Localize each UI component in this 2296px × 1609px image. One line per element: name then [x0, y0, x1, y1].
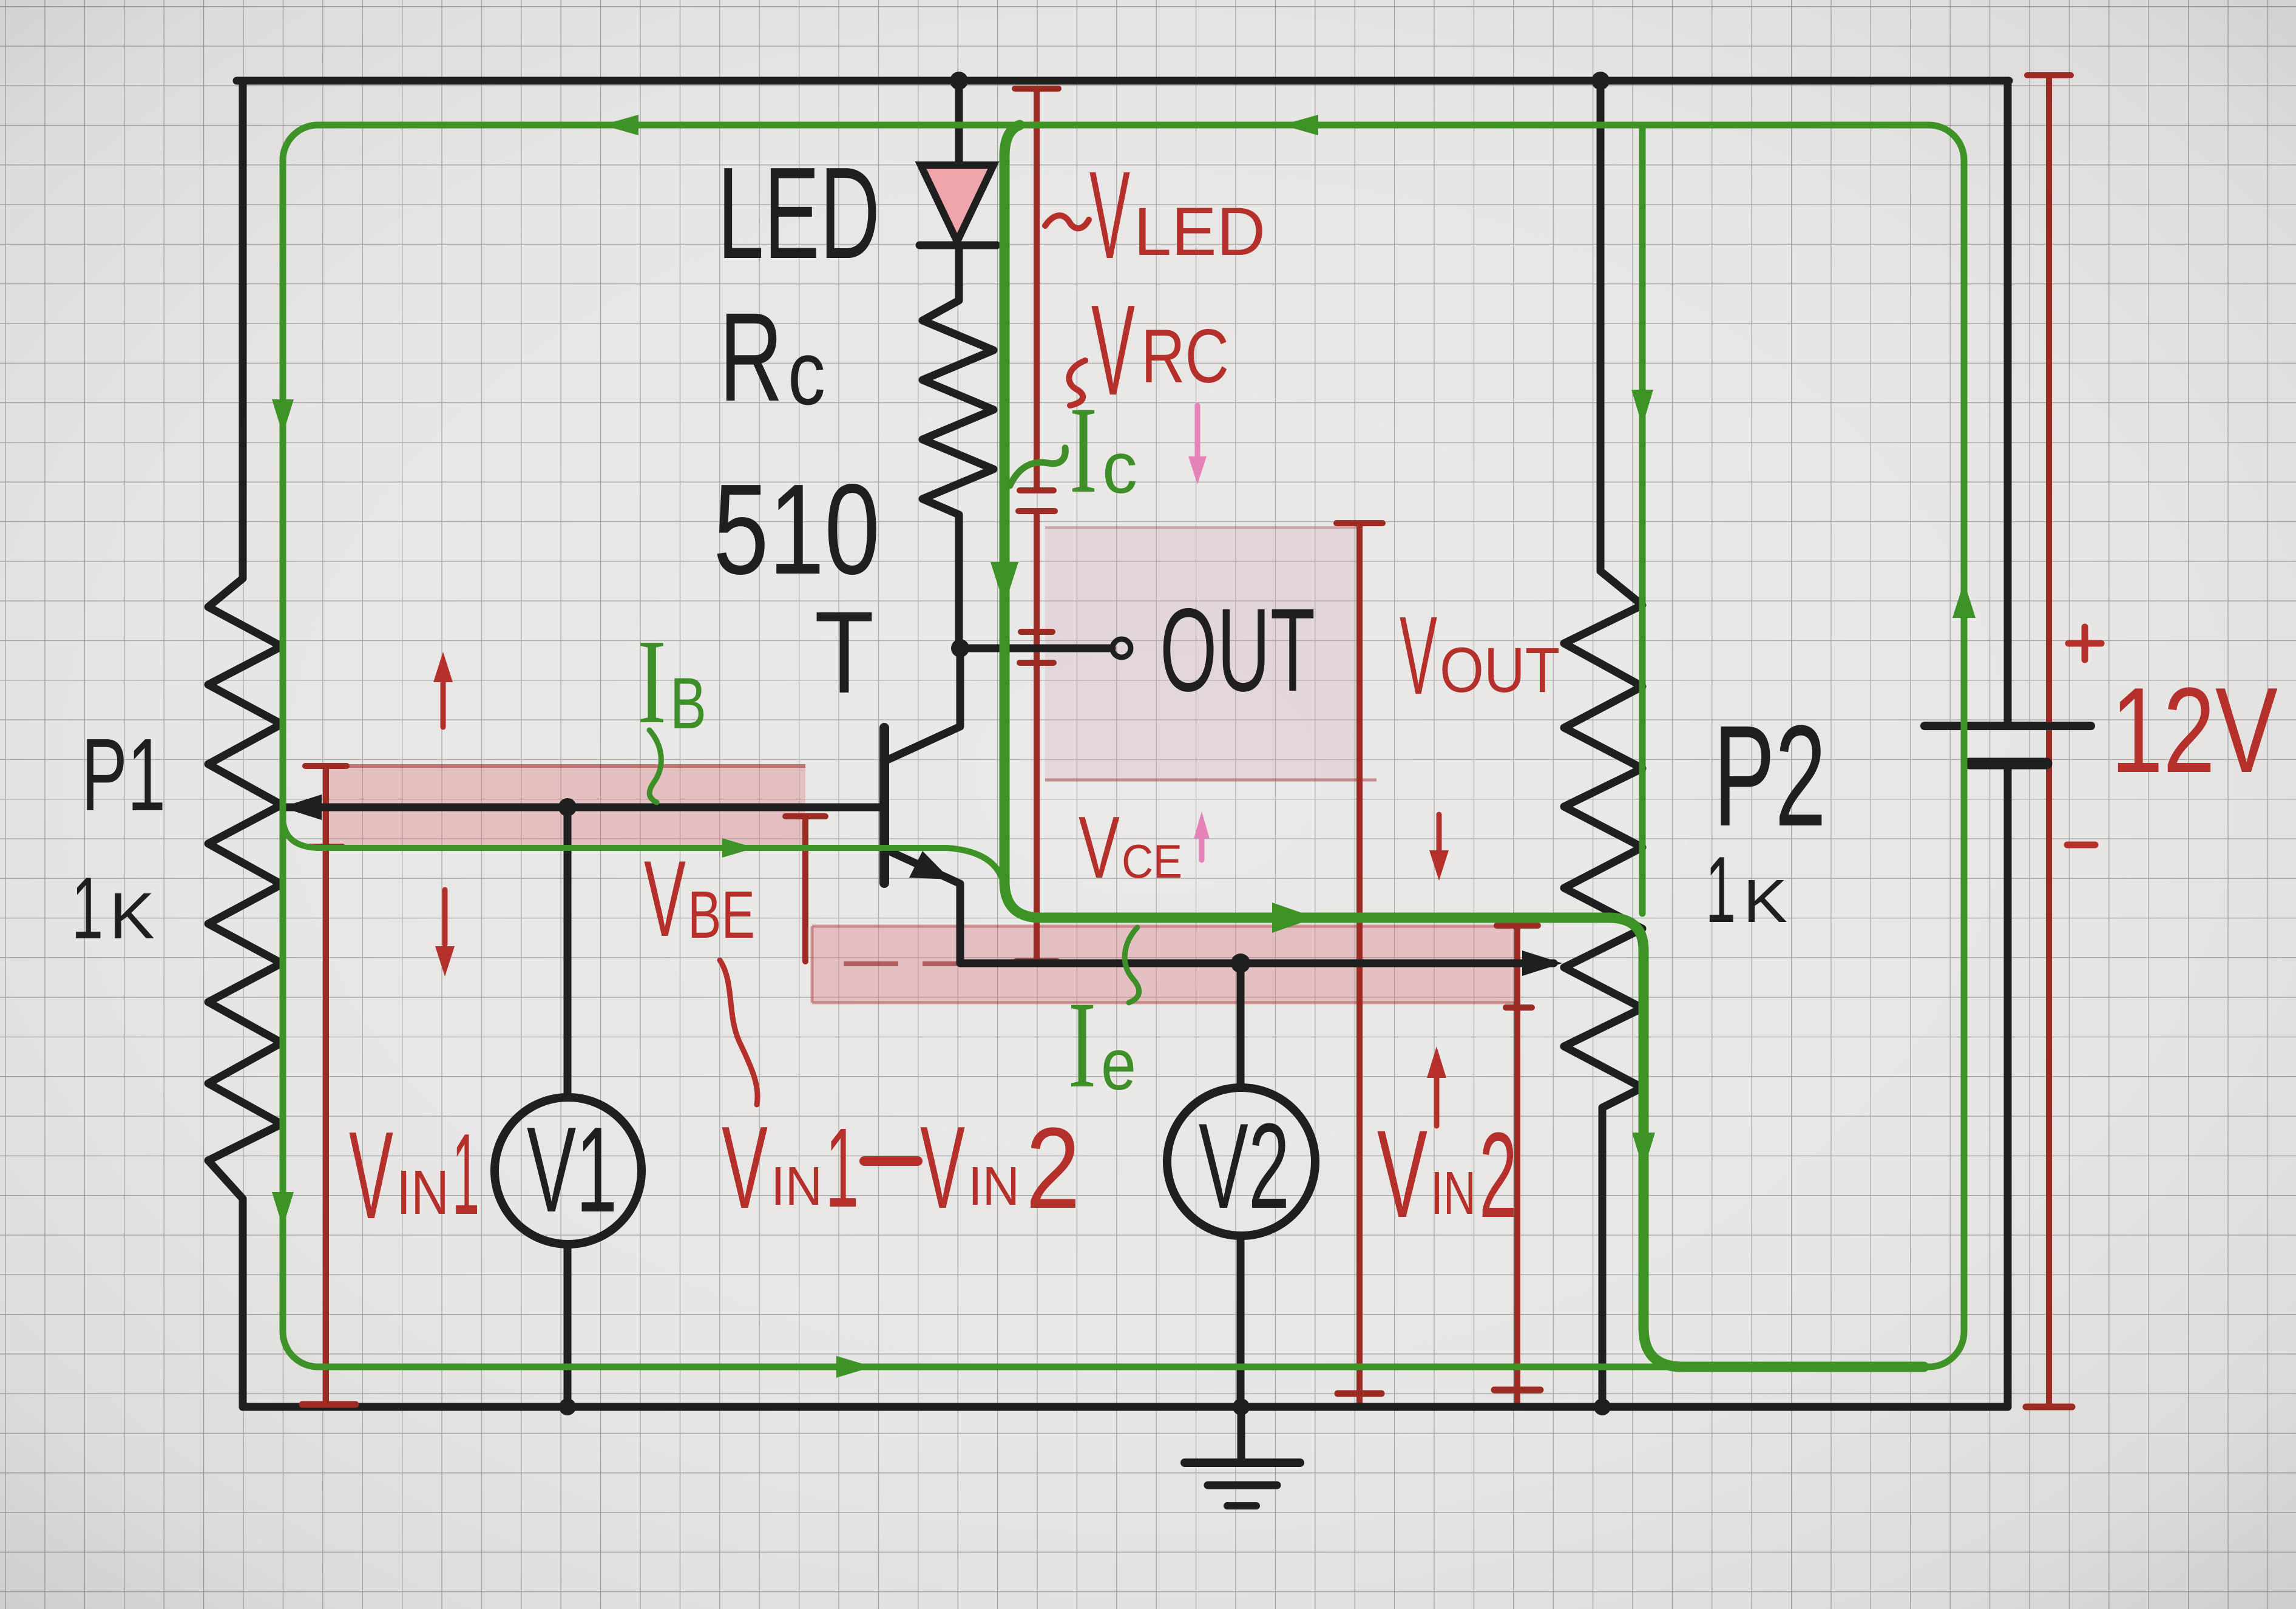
highlight band over emitter wire — [812, 926, 1517, 1003]
green collector path wire — [1004, 125, 1924, 1367]
arrow down Ic (pink) — [1195, 405, 1200, 455]
node V1 bottom — [559, 1398, 576, 1415]
svg-text:I: I — [1069, 381, 1097, 519]
LED anode wire — [955, 81, 963, 164]
svg-text:V: V — [920, 1102, 965, 1233]
svg-text:c: c — [788, 322, 825, 424]
svg-text:e: e — [1101, 1024, 1136, 1105]
node base / V1 — [558, 798, 577, 816]
voltmeter V2 circle — [1167, 1088, 1315, 1236]
wire V2 stem — [1237, 963, 1245, 1407]
svg-text:V1: V1 — [527, 1102, 617, 1238]
node P2 bottom — [1594, 1398, 1611, 1415]
ground bars — [1185, 1458, 1300, 1467]
wire base from P1 wiper — [285, 804, 881, 811]
potentiometer P1 body — [208, 81, 282, 1407]
VIN2 measurement line — [1497, 926, 1538, 1407]
svg-text:IN: IN — [968, 1156, 1020, 1217]
svg-text:V: V — [1377, 1105, 1427, 1244]
wire OUT — [960, 645, 1112, 652]
svg-text:LED: LED — [717, 140, 880, 286]
svg-text:V: V — [722, 1102, 768, 1233]
arrow P2 lower down — [1632, 1133, 1655, 1170]
transistor T emitter — [886, 850, 1554, 963]
green base branch wire — [283, 816, 1004, 887]
VRC / VCE measurement line — [1016, 511, 1057, 961]
12V measurement line — [2027, 75, 2071, 1407]
red squiggle of VBE — [720, 960, 757, 1105]
node P2 top — [1591, 72, 1610, 90]
arrow left down 2 — [272, 1192, 294, 1227]
svg-text:1: 1 — [825, 1105, 859, 1231]
12V bottom cap — [2026, 1404, 2072, 1411]
svg-text:1: 1 — [1705, 837, 1736, 942]
green outer loop wire — [283, 125, 1964, 1367]
svg-text:B: B — [670, 663, 706, 744]
svg-text:BE: BE — [688, 878, 755, 952]
transistor emitter arrow — [909, 851, 950, 879]
LED diode triangle — [921, 165, 994, 242]
wire V1 stem — [564, 807, 572, 1407]
arrow up VCE (pink) — [1199, 838, 1205, 860]
svg-text:CE: CE — [1122, 835, 1182, 888]
red squiggle of VRC — [1069, 361, 1085, 405]
arrow left down 1 — [272, 399, 294, 435]
VIN1 bottom cap — [302, 1401, 356, 1408]
node emitter / V2 — [1231, 954, 1250, 973]
potentiometer P2 body — [1564, 81, 1642, 1407]
svg-text:510: 510 — [713, 457, 880, 601]
svg-text:OUT: OUT — [1440, 635, 1560, 706]
arrow base branch right — [722, 838, 755, 858]
green P2 upper branch wire — [1639, 127, 1646, 913]
arrow P2 branch down — [1631, 390, 1653, 426]
svg-text:T: T — [814, 587, 874, 717]
svg-text:P1: P1 — [81, 717, 166, 833]
arrow down below base wire — [442, 890, 448, 944]
arrow right up flow — [1952, 581, 1976, 618]
svg-text:c: c — [1102, 427, 1137, 509]
green squiggle of Ie — [1125, 927, 1139, 1003]
svg-text:V: V — [1079, 798, 1120, 896]
arrow top-left flow — [602, 115, 638, 135]
ground stem — [1238, 1407, 1245, 1460]
svg-text:V: V — [1091, 278, 1135, 422]
wire top rail — [237, 77, 2009, 85]
transistor T base bar — [879, 728, 889, 883]
arrow collector down — [991, 562, 1018, 606]
wire right rail to battery — [2004, 81, 2012, 1407]
svg-text:R: R — [719, 287, 783, 428]
svg-text:I: I — [637, 615, 666, 749]
red caps re-drawn over black bottom rail — [302, 1390, 2072, 1407]
highlight box around OUT region — [1045, 527, 1358, 780]
svg-text:I: I — [1068, 976, 1096, 1114]
arrow bottom right flow — [836, 1356, 873, 1378]
battery B1 plates — [1925, 722, 2091, 730]
svg-text:OUT: OUT — [1160, 584, 1315, 716]
resistor Rc zigzag — [923, 245, 994, 648]
svg-text:K: K — [109, 879, 155, 952]
svg-text:1: 1 — [72, 859, 103, 957]
green squiggle of IB — [649, 730, 661, 802]
VOUT bottom cap — [1338, 1391, 1381, 1397]
svg-text:2: 2 — [1479, 1108, 1517, 1243]
svg-text:IN: IN — [396, 1157, 449, 1227]
green squiggle of Ic — [1010, 448, 1065, 486]
svg-text:RC: RC — [1141, 314, 1229, 399]
node OUT junction — [951, 639, 969, 657]
node V2 bottom — [1233, 1398, 1250, 1415]
svg-text:V2: V2 — [1199, 1099, 1290, 1234]
highlight band over base wire (VBE band) — [323, 766, 805, 847]
arrow up VIN2 — [1434, 1077, 1440, 1126]
battery plus sign — [2068, 627, 2101, 660]
arrow down VOUT — [1437, 815, 1442, 851]
svg-text:1: 1 — [452, 1110, 479, 1239]
VBE measurement line — [785, 816, 825, 961]
svg-text:V: V — [1089, 146, 1130, 285]
svg-text:K: K — [1743, 867, 1787, 935]
OUT terminal circle — [1112, 639, 1131, 657]
red tilde of VLED — [1045, 215, 1089, 228]
voltmeter V1 circle — [495, 1097, 642, 1244]
VIN2 bottom cap — [1494, 1387, 1540, 1394]
svg-text:12V: 12V — [2111, 663, 2278, 798]
svg-text:V: V — [644, 838, 686, 959]
node LED top — [950, 72, 968, 90]
svg-text:IN: IN — [771, 1156, 822, 1217]
battery minus sign — [2067, 842, 2095, 849]
arrow emitter right big — [1272, 903, 1316, 933]
arrow top-mid flow — [1282, 115, 1318, 135]
transistor T collector — [886, 648, 960, 760]
wire bottom rail — [243, 1403, 2008, 1411]
svg-text:V: V — [1400, 593, 1437, 717]
VLED measurement line — [1015, 89, 1058, 511]
svg-text:P2: P2 — [1713, 696, 1826, 856]
P2 wiper arrow — [1522, 950, 1562, 976]
svg-text:2: 2 — [1026, 1104, 1080, 1233]
arrow up above base wire — [441, 680, 446, 727]
svg-text:IN: IN — [1431, 1159, 1476, 1227]
svg-text:LED: LED — [1134, 194, 1265, 269]
P1 wiper arrow — [282, 794, 322, 820]
VIN1 measurement line — [305, 766, 347, 1407]
svg-text:V: V — [349, 1106, 393, 1245]
VOUT measurement line — [1336, 523, 1383, 1407]
